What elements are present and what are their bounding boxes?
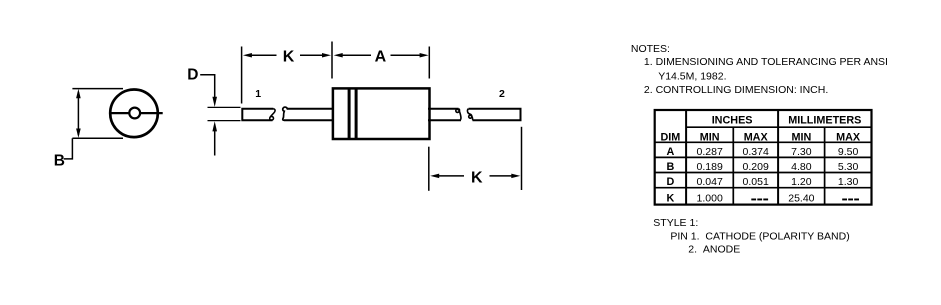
dim A top: right arrowhead	[420, 53, 429, 58]
svg-text:MAX: MAX	[836, 131, 861, 143]
table: line under INCHES/MILLIMETERS	[686, 126, 871, 128]
dim K bottom: right tail line	[490, 175, 514, 177]
svg-text:INCHES: INCHES	[712, 115, 753, 127]
svg-text:0.189: 0.189	[697, 161, 723, 173]
dim D: top extension line of lead	[208, 106, 241, 108]
table: line under row A	[655, 156, 872, 158]
diode body	[333, 88, 430, 139]
svg-text:B: B	[666, 161, 674, 173]
dim B: down arrowhead	[76, 129, 81, 138]
dim D: lower leader line	[214, 130, 216, 156]
end view: package circle	[110, 90, 158, 138]
table: vertical line between MIN and MAX (inches)	[732, 127, 734, 204]
table: outer border	[655, 110, 872, 205]
svg-text:DIM: DIM	[661, 131, 681, 143]
svg-text:A: A	[666, 146, 674, 158]
dim A top: right tail line	[391, 54, 422, 56]
dim K top: right tail line	[300, 54, 324, 56]
svg-text:4.80: 4.80	[791, 161, 812, 173]
table: line under header row	[655, 141, 872, 143]
svg-text:MAX: MAX	[744, 131, 769, 143]
svg-text:PIN 1. CATHODE (POLARITY BAND: PIN 1. CATHODE (POLARITY BAND)	[670, 231, 849, 243]
svg-text:1. DIMENSIONING AND TOLERANCIN: 1. DIMENSIONING AND TOLERANCING PER ANSI	[644, 56, 888, 68]
svg-text:1.30: 1.30	[838, 176, 859, 188]
dim B: vertical dimension line	[77, 92, 79, 135]
svg-text:NOTES:: NOTES:	[631, 43, 670, 55]
dim A top: left arrowhead	[334, 53, 343, 58]
dim K top: left arrowhead	[243, 53, 252, 58]
dim B: up arrowhead	[76, 89, 81, 98]
table: vertical line between INCHES and MILLIMETERS	[777, 110, 779, 205]
svg-text:K: K	[283, 49, 295, 66]
dim D: bottom extension line of lead	[208, 120, 241, 122]
dim K/A top: middle extension line	[331, 42, 333, 79]
dim K bottom: left arrowhead	[430, 174, 439, 179]
svg-text:STYLE 1:: STYLE 1:	[653, 217, 698, 229]
lead 1 left break curl	[270, 109, 275, 120]
lead 2 right segment	[469, 109, 521, 121]
end view: center line through circle	[109, 112, 163, 114]
svg-text:0.051: 0.051	[743, 176, 769, 188]
svg-text:0.374: 0.374	[743, 146, 769, 158]
polarity band line 1	[348, 88, 351, 139]
table: line under row D	[655, 187, 872, 189]
lead 2 left break curl	[456, 109, 461, 120]
svg-text:MIN: MIN	[792, 131, 812, 143]
svg-text:2: 2	[499, 88, 505, 100]
lead 1 right break curl	[283, 107, 288, 120]
dim K bottom: right arrowhead	[511, 174, 520, 179]
table: line under row B	[655, 172, 872, 174]
lead 1 left segment	[242, 109, 273, 121]
lead 1 right segment	[284, 109, 333, 121]
dim K top: left tail line	[250, 54, 277, 56]
end view: lead hole	[129, 108, 140, 119]
svg-text:5.30: 5.30	[838, 161, 859, 173]
dim K top: right arrowhead	[322, 53, 331, 58]
svg-text:A: A	[375, 49, 387, 66]
svg-text:0.047: 0.047	[697, 176, 723, 188]
dim A top: right extension line	[428, 47, 430, 79]
svg-text:0.209: 0.209	[743, 161, 769, 173]
svg-text:B: B	[54, 153, 65, 170]
svg-text:9.50: 9.50	[838, 146, 859, 158]
svg-text:K: K	[471, 169, 483, 186]
dim D: up arrowhead	[212, 121, 217, 131]
svg-text:Y14.5M, 1982.: Y14.5M, 1982.	[658, 70, 726, 82]
svg-text:2. ANODE: 2. ANODE	[688, 244, 740, 256]
dim K bottom: right extension line	[521, 127, 523, 190]
table: vertical line between MIN and MAX (mm)	[824, 127, 826, 204]
dim B: bottom extension line	[72, 137, 123, 139]
lead 2 left segment	[428, 109, 461, 121]
dim D: down arrowhead	[212, 97, 217, 107]
dim A top: left tail line	[341, 54, 371, 56]
svg-text:25.40: 25.40	[788, 192, 814, 204]
svg-text:1.000: 1.000	[697, 192, 723, 204]
svg-text:D: D	[187, 67, 198, 84]
svg-text:7.30: 7.30	[791, 146, 812, 158]
dim K bottom: left extension line	[428, 147, 430, 191]
table: vertical line after DIM column	[685, 110, 687, 205]
dim B: leader line	[64, 138, 73, 159]
svg-text:MIN: MIN	[700, 131, 720, 143]
svg-text:1: 1	[255, 88, 261, 100]
dim D: leader line	[200, 75, 215, 98]
lead 2 right break curl	[467, 109, 472, 121]
polarity band line 2	[355, 88, 358, 139]
svg-text:1.20: 1.20	[791, 176, 812, 188]
svg-text:D: D	[666, 176, 674, 188]
dim K bottom: left tail line	[438, 175, 465, 177]
svg-text:MILLIMETERS: MILLIMETERS	[788, 115, 861, 127]
dim K top: left extension line	[241, 47, 243, 104]
svg-text:K: K	[666, 192, 674, 204]
dim B: top extension line	[72, 88, 123, 90]
svg-text:0.287: 0.287	[697, 146, 723, 158]
svg-text:2. CONTROLLING DIMENSION: INCH: 2. CONTROLLING DIMENSION: INCH.	[644, 84, 828, 96]
